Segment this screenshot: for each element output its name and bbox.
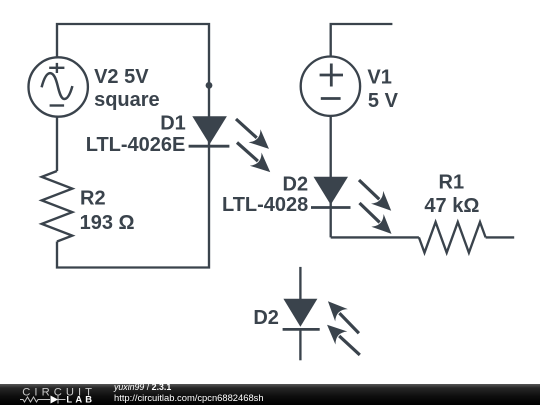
svg-text:47 kΩ: 47 kΩ [424, 195, 479, 217]
svg-text:R2: R2 [80, 188, 106, 210]
svg-text:V2 5V: V2 5V [94, 66, 149, 88]
svg-text:LAB: LAB [66, 394, 95, 405]
svg-text:5 V: 5 V [368, 90, 399, 112]
svg-text:LTL-4028: LTL-4028 [222, 194, 308, 216]
svg-text:square: square [94, 89, 160, 111]
svg-text:V1: V1 [367, 67, 391, 89]
svg-text:193 Ω: 193 Ω [80, 212, 135, 234]
svg-text:R1: R1 [439, 172, 465, 194]
svg-text:D2: D2 [253, 307, 279, 329]
svg-text:D2: D2 [283, 173, 309, 195]
svg-text:LTL-4026E: LTL-4026E [86, 134, 186, 156]
svg-text:D1: D1 [160, 112, 186, 134]
